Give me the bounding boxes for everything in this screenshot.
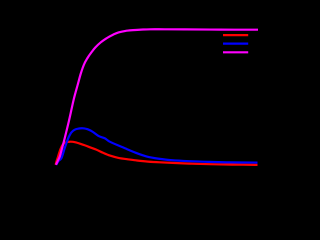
legend red line bbox=[223, 34, 248, 36]
legend magenta line bbox=[223, 51, 248, 53]
legend blue line bbox=[223, 42, 248, 44]
curve blue (slow intermediate) bbox=[56, 128, 257, 165]
curve magenta (product, saturating) bbox=[56, 29, 258, 165]
curve red (fast intermediate) bbox=[56, 142, 258, 165]
